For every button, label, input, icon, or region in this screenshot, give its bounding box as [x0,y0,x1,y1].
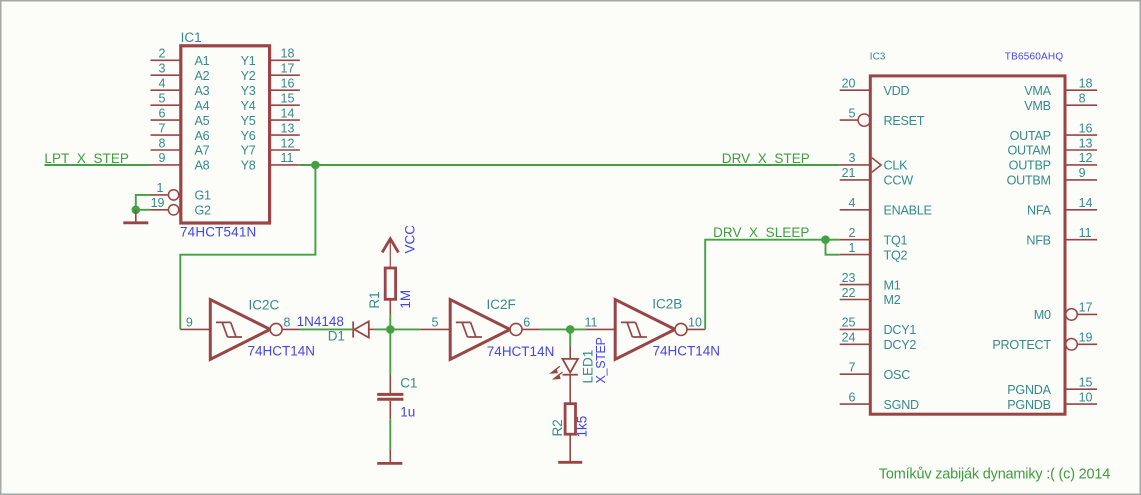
svg-text:IC2C: IC2C [249,297,280,312]
svg-text:15: 15 [281,92,295,106]
inverter IC2C 74HCT14N [210,297,315,359]
IC1 pin 16 Y3 [241,77,300,98]
IC3 pin 11 NFB [1026,226,1097,247]
svg-text:VDD: VDD [884,84,910,98]
IC1 name label [181,30,202,45]
IC1 pin 13 Y6 [241,121,300,142]
svg-text:7: 7 [849,361,856,375]
svg-text:A6: A6 [195,129,210,143]
svg-text:IC2B: IC2B [652,296,682,311]
svg-text:R2: R2 [550,419,565,436]
svg-text:12: 12 [1079,151,1093,165]
svg-text:Y3: Y3 [241,84,256,98]
svg-text:19: 19 [151,196,165,210]
IC1 pin 7 A6 [151,121,210,142]
svg-text:IC2F: IC2F [487,297,516,312]
svg-text:A1: A1 [195,54,210,68]
svg-text:12: 12 [281,136,295,150]
IC1 pin 1 G1 (inverted) [151,181,212,202]
wire R1 to node [389,315,391,330]
IC3 pin 20 VDD [840,77,910,98]
IC1 pin 8 A7 [151,136,210,157]
svg-text:8: 8 [1079,92,1086,106]
diode D1 1N4148 [353,321,375,337]
IC3 pin 13 OUTAM [1008,136,1098,157]
IC1 pin 11 Y8 [241,151,300,172]
inverter IC2B input pin 11 [585,316,616,330]
svg-text:D1: D1 [328,328,345,343]
svg-text:TQ2: TQ2 [884,248,908,262]
IC3 pin 4 ENABLE [840,196,932,217]
wire DRV_X_STEP (Y8 to IC3 CLK) [300,164,840,166]
supply VCC symbol [382,239,398,268]
svg-text:LPT_X_STEP: LPT_X_STEP [44,151,129,166]
D1 name label [328,328,345,343]
R2 value label 1k5 [574,416,589,438]
ground GND under G1/G2 [123,210,148,223]
junction LED node [566,325,575,334]
svg-text:ENABLE: ENABLE [884,204,932,218]
svg-text:G1: G1 [195,189,212,203]
C1 name label [400,376,417,391]
svg-text:14: 14 [1079,196,1093,210]
R2 name label [550,419,565,436]
svg-text:1N4148: 1N4148 [297,314,344,329]
svg-text:3: 3 [849,151,856,165]
IC1 pin 14 Y5 [241,106,300,127]
IC1 pin 2 A1 [151,47,210,68]
wire DRV_X_SLEEP (IC2B out to IC3 TQ1) [705,240,840,330]
capacitor C1 [377,374,403,419]
svg-text:8: 8 [159,136,166,150]
svg-text:5: 5 [159,92,166,106]
wire IC2F output to IC2B input [540,328,585,330]
svg-text:OUTBP: OUTBP [1009,159,1051,173]
wire C1 to ground [389,419,391,449]
svg-text:2: 2 [159,47,166,61]
IC3 pin 22 M2 [840,286,901,307]
IC3 pin 14 NFA [1027,196,1097,217]
svg-text:IC1: IC1 [181,30,202,45]
svg-text:23: 23 [842,271,856,285]
svg-text:13: 13 [1079,136,1093,150]
IC1 value label 74HCT541N [180,225,256,240]
svg-text:2: 2 [849,226,856,240]
LED LED1 X_STEP [551,345,578,404]
IC3 pin 6 SGND [840,390,919,411]
svg-text:CCW: CCW [884,174,914,188]
C1 value label 1u [400,405,415,420]
svg-text:14: 14 [281,106,295,120]
svg-text:M0: M0 [1034,308,1051,322]
svg-text:3: 3 [159,62,166,76]
net label DRV_X_SLEEP [713,225,809,240]
IC3 pin 19 PROTECT [992,331,1097,352]
svg-text:Y7: Y7 [241,144,256,158]
svg-text:1u: 1u [400,405,415,420]
IC3 pin 3 CLK [840,151,908,172]
resistor R2 [565,404,575,462]
svg-text:11: 11 [281,151,294,165]
svg-text:A3: A3 [195,84,210,98]
IC IC1 74HCT541N body [181,46,270,223]
ground GND under R2 [558,461,582,464]
inverter IC2C input pin 9 [180,316,210,330]
svg-text:PGNDB: PGNDB [1007,398,1051,412]
svg-text:6: 6 [523,316,530,330]
svg-text:A4: A4 [195,99,210,113]
junction at G1/G2 node [132,206,141,215]
svg-text:DCY2: DCY2 [884,338,917,352]
svg-text:R1: R1 [367,291,382,308]
wire node to IC2F input [390,328,420,330]
svg-text:OUTAP: OUTAP [1010,129,1051,143]
svg-text:Y8: Y8 [241,159,256,173]
ground GND under C1 [377,449,402,463]
svg-text:PGNDA: PGNDA [1007,383,1051,397]
footer title text [879,467,1110,483]
svg-text:NFA: NFA [1027,204,1052,218]
IC3 pin 17 M0 [1034,301,1097,322]
svg-text:1: 1 [849,241,856,255]
IC3 pin 5 RESET [840,106,925,127]
svg-text:13: 13 [281,121,295,135]
svg-text:8: 8 [284,316,291,330]
svg-text:DCY1: DCY1 [884,323,917,337]
IC3 pin 18 VMA [1024,77,1097,98]
svg-text:5: 5 [849,106,856,120]
svg-text:1k5: 1k5 [574,416,589,438]
inverter IC2C output pin 8 [282,316,300,330]
svg-text:6: 6 [159,106,166,120]
IC3 pin 15 PGNDA [1007,376,1097,397]
svg-text:TB6560AHQ: TB6560AHQ [1005,51,1064,62]
LED1 name label [580,350,595,384]
svg-text:Y6: Y6 [241,129,256,143]
net label DRV_X_STEP [722,151,810,166]
wire node down to LED1 [569,329,571,345]
IC IC3 TB6560AHQ body [870,76,1065,414]
svg-text:CLK: CLK [884,159,909,173]
svg-text:TQ1: TQ1 [884,233,908,247]
svg-text:17: 17 [281,62,295,76]
IC3 pin 16 OUTAP [1010,121,1098,142]
IC1 pin 17 Y2 [241,62,300,83]
svg-text:RESET: RESET [884,114,925,128]
svg-text:SGND: SGND [884,398,920,412]
svg-text:7: 7 [159,121,166,135]
svg-text:18: 18 [281,47,295,61]
svg-text:DRV_X_STEP: DRV_X_STEP [722,151,810,166]
svg-text:NFB: NFB [1026,233,1050,247]
svg-text:DRV_X_SLEEP: DRV_X_SLEEP [713,225,809,240]
svg-text:74HCT541N: 74HCT541N [180,225,256,240]
IC1 pin 12 Y7 [241,136,300,157]
VCC net label [403,225,418,254]
svg-text:OUTBM: OUTBM [1007,174,1051,188]
svg-text:17: 17 [1079,301,1093,315]
svg-text:22: 22 [842,286,856,300]
IC1 pin 18 Y1 [241,47,300,68]
junction node D1/R1/C1 [386,325,395,334]
IC3 name label [870,51,886,62]
junction on DRV_X_SLEEP [821,235,830,244]
svg-text:5: 5 [432,316,439,330]
inverter IC2F input pin 5 [420,316,450,330]
inverter IC2F 74HCT14N [450,297,554,360]
svg-text:Y5: Y5 [241,114,256,128]
svg-text:10: 10 [1079,390,1093,404]
svg-text:A7: A7 [195,144,210,158]
R1 value label 1M [398,290,413,309]
svg-text:M1: M1 [884,278,901,292]
IC3 pin 1 TQ2 [840,241,908,262]
svg-text:IC3: IC3 [870,51,886,62]
svg-text:9: 9 [159,151,166,165]
IC3 pin 24 DCY2 [840,331,917,352]
IC1 pin 5 A4 [151,92,210,113]
svg-text:Y4: Y4 [241,99,256,113]
svg-text:9: 9 [186,316,193,330]
svg-text:25: 25 [842,316,856,330]
svg-text:15: 15 [1079,376,1093,390]
svg-text:A5: A5 [195,114,210,128]
svg-text:74HCT14N: 74HCT14N [487,344,555,359]
svg-text:C1: C1 [400,376,417,391]
svg-text:1: 1 [157,181,164,195]
svg-text:PROTECT: PROTECT [992,338,1051,352]
IC3 pin 8 VMB [1024,92,1097,113]
svg-text:16: 16 [281,77,295,91]
svg-text:VMA: VMA [1024,84,1051,98]
svg-text:VCC: VCC [403,225,418,254]
IC3 pin 12 OUTBP [1009,151,1097,172]
IC3 pin 25 DCY1 [840,316,917,337]
svg-text:4: 4 [849,196,856,210]
svg-text:Y2: Y2 [241,69,256,83]
svg-text:X_STEP: X_STEP [594,337,608,383]
svg-text:21: 21 [842,166,856,180]
wire G1 to junction [136,195,151,210]
svg-text:M2: M2 [884,293,901,307]
svg-text:18: 18 [1079,77,1093,91]
wire LPT_X_STEP to IC1 pin 9 [44,164,150,166]
IC3 pin 2 TQ1 [840,226,908,247]
inverter IC2B 74HCT14N [615,296,720,359]
IC1 pin 15 Y4 [241,92,300,113]
IC3 pin 7 OSC [840,361,910,382]
IC1 pin 3 A2 [151,62,210,83]
wire IC2C output to D1 [300,328,352,330]
IC1 pin 4 A3 [151,77,210,98]
LED1 value label X_STEP [594,337,608,383]
svg-text:9: 9 [1079,166,1086,180]
IC3 value label TB6560AHQ [1005,51,1064,62]
D1 value label 1N4148 [297,314,344,329]
svg-text:19: 19 [1079,331,1093,345]
wire junction to IC3 TQ2 [826,240,840,255]
net label LPT_X_STEP [44,151,129,166]
svg-text:OSC: OSC [884,368,911,382]
IC3 pin 9 OUTBM [1007,166,1098,187]
junction on DRV_X_STEP [311,161,320,170]
svg-text:A2: A2 [195,69,210,83]
wire D1 to node [375,328,386,330]
IC1 pin 19 G2 (inverted) [151,196,212,217]
IC1 pin 6 A5 [151,106,210,127]
resistor R1 [385,268,395,315]
svg-text:16: 16 [1079,121,1093,135]
IC3 pin 10 PGNDB [1007,390,1097,411]
svg-text:Y1: Y1 [241,54,256,68]
wire node down to C1 [389,329,391,374]
svg-text:20: 20 [842,77,856,91]
IC3 pin 21 CCW [840,166,913,187]
svg-text:74HCT14N: 74HCT14N [653,344,721,359]
svg-text:6: 6 [849,390,856,404]
inverter IC2B output pin 10 [687,316,705,330]
svg-text:VMB: VMB [1024,99,1051,113]
IC1 pin 9 A8 [151,151,210,172]
svg-text:74HCT14N: 74HCT14N [248,344,316,359]
svg-text:11: 11 [585,316,598,330]
wire G2 to junction [136,209,151,211]
svg-text:11: 11 [1079,226,1092,240]
svg-text:Tomíkův zabiják dynamiky :( (c: Tomíkův zabiják dynamiky :( (c) 2014 [879,467,1110,483]
IC3 pin 23 M1 [840,271,901,292]
svg-text:24: 24 [842,331,856,345]
svg-text:4: 4 [159,77,166,91]
svg-text:10: 10 [688,316,702,330]
svg-text:1M: 1M [398,290,413,309]
svg-text:OUTAM: OUTAM [1008,144,1051,158]
svg-text:A8: A8 [195,159,210,173]
R1 name label [367,291,382,308]
wire junction down to IC2C input [180,165,315,329]
inverter IC2F output pin 6 [522,316,540,330]
svg-text:G2: G2 [195,204,212,218]
